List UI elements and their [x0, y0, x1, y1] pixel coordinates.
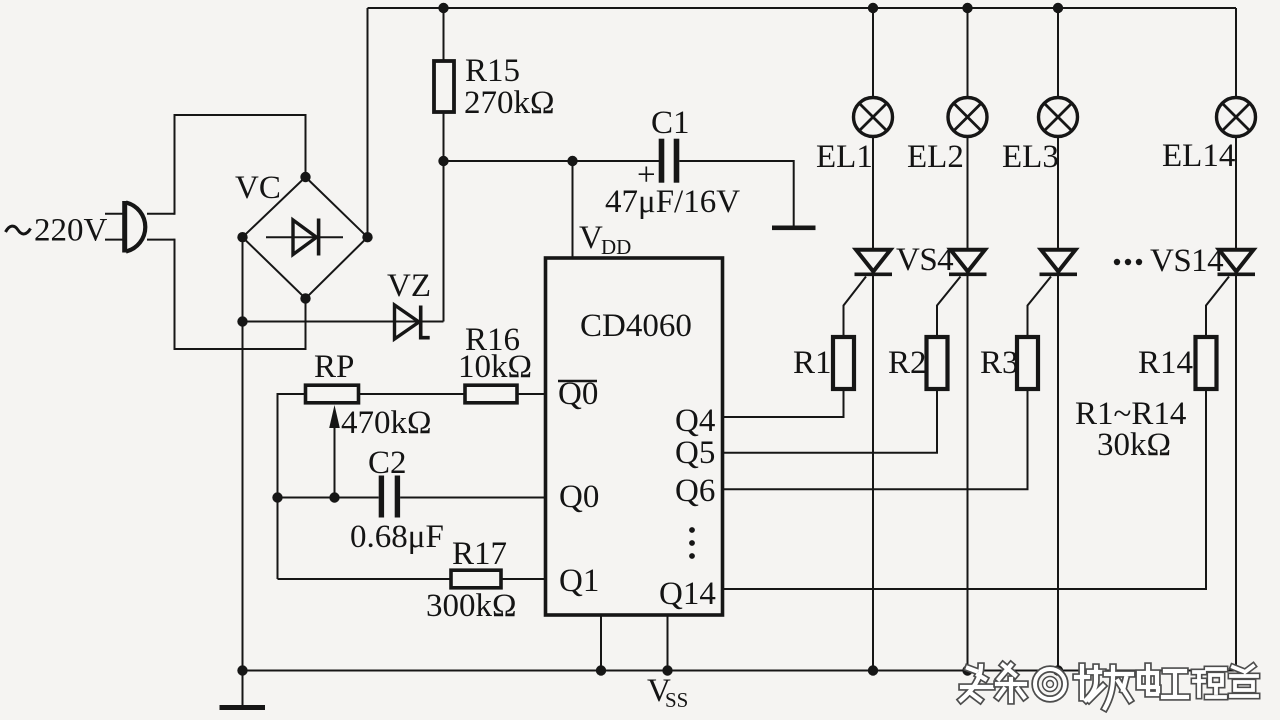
svg-text:470kΩ: 470kΩ	[341, 405, 432, 441]
svg-text:SS: SS	[665, 688, 688, 712]
wire R16 to IC	[517, 393, 546, 395]
capacitor C1	[659, 139, 680, 183]
svg-text:R3: R3	[980, 345, 1019, 381]
svg-text:VS14: VS14	[1150, 243, 1223, 279]
ground (C1)	[772, 226, 816, 231]
potentiometer RP	[306, 385, 359, 403]
net Q6 wire	[723, 389, 1028, 489]
svg-text:30kΩ: 30kΩ	[1097, 427, 1171, 463]
svg-text:C1: C1	[651, 105, 690, 141]
svg-text:Q4: Q4	[675, 403, 715, 439]
resistor R17	[451, 570, 501, 588]
svg-text:R14: R14	[1138, 345, 1193, 381]
lamp EL2 column	[948, 8, 987, 671]
svg-text:CD4060: CD4060	[580, 308, 692, 344]
wire VZ anode line	[243, 321, 444, 323]
lamp EL3 column	[1039, 8, 1078, 671]
bridge rectifier VC (diamond)	[243, 177, 368, 299]
dots (ellipsis before VS14)	[1114, 259, 1142, 265]
node bridge bottom	[300, 293, 310, 303]
label VSS	[647, 673, 688, 712]
node bus EL2	[962, 665, 972, 675]
thyristor VS1	[844, 250, 893, 337]
node R15 bottom / VDD rail	[438, 156, 448, 166]
zener diode VZ	[395, 305, 430, 339]
dots (vertical ellipsis inside IC)	[689, 527, 695, 559]
plug XP (AC plug symbol)	[105, 201, 175, 253]
svg-text:10kΩ: 10kΩ	[458, 349, 532, 385]
net Q1: wire left	[278, 578, 452, 580]
resistor R16	[465, 385, 517, 403]
wire RP to R16	[359, 393, 466, 395]
net Q4 wire	[723, 389, 844, 417]
wire bridge left vertex down (to VSS bus)	[242, 237, 244, 670]
svg-text:EL3: EL3	[1002, 139, 1059, 175]
RP wiper arrow	[329, 405, 340, 498]
net Q0bar: wire RP-R16-IC	[278, 394, 306, 579]
svg-text:300kΩ: 300kΩ	[426, 588, 517, 624]
node top bus / R15	[438, 3, 448, 13]
lamp EL1 column	[854, 8, 893, 671]
svg-text:RP: RP	[314, 349, 354, 385]
svg-text:R2: R2	[888, 345, 927, 381]
IC U1 CD4060 box	[546, 258, 723, 615]
net Q5 wire	[723, 389, 937, 453]
node VSS pin 2	[662, 665, 672, 675]
svg-text:47μF/16V: 47μF/16V	[605, 184, 740, 220]
node top bus EL1	[868, 3, 878, 13]
node bus EL1	[868, 665, 878, 675]
pin Q0bar label	[558, 376, 598, 412]
wire R17 to IC	[501, 578, 546, 580]
resistor R15	[434, 8, 454, 322]
svg-text:EL14: EL14	[1162, 138, 1235, 174]
svg-text:EL1: EL1	[816, 139, 873, 175]
wire top bus	[368, 7, 1237, 9]
thyristor VS2	[937, 250, 987, 337]
svg-text:EL2: EL2	[907, 139, 964, 175]
node top bus EL2	[962, 3, 972, 13]
lamp EL14 column	[1217, 8, 1256, 671]
node bridge top	[300, 172, 310, 182]
wire C2 to IC	[400, 497, 545, 499]
node VZ junction	[237, 316, 247, 326]
net Q0: node left	[272, 492, 282, 502]
wire VDD rail to C1	[444, 160, 660, 162]
wire bridge right vertex up to top bus	[367, 8, 369, 237]
svg-text:V: V	[579, 220, 603, 256]
wire VZ cathode corner up	[443, 160, 445, 322]
svg-text:VZ: VZ	[387, 268, 431, 304]
label VDD	[579, 220, 631, 259]
node bridge right	[362, 232, 372, 242]
svg-text:270kΩ: 270kΩ	[464, 85, 555, 121]
wire Q0 left	[278, 497, 379, 499]
svg-text:Q14: Q14	[659, 576, 716, 612]
node VSS pin 1	[596, 665, 606, 675]
node wiper	[329, 492, 339, 502]
IC VSS pin wires	[600, 615, 602, 671]
wire C1 to ground	[679, 161, 793, 226]
watermark 头条@技成电工课堂	[961, 665, 1257, 708]
label ~220V	[6, 213, 108, 249]
node bus left	[237, 665, 247, 675]
node bus EL3	[1053, 665, 1063, 675]
node VDD tap	[567, 156, 577, 166]
svg-text:R17: R17	[452, 536, 507, 572]
thyristor VS3	[1028, 250, 1078, 337]
svg-text:Q1: Q1	[559, 563, 599, 599]
wire VSS bus	[243, 670, 1237, 672]
svg-text:C2: C2	[368, 445, 407, 481]
svg-text:VS4: VS4	[896, 242, 953, 278]
bridge inner diode	[266, 219, 343, 256]
svg-text:R1: R1	[793, 345, 832, 381]
capacitor C2	[379, 476, 400, 518]
svg-text:220V: 220V	[34, 213, 108, 249]
svg-text:Q6: Q6	[675, 473, 715, 509]
ground (left)	[220, 705, 266, 710]
svg-text:Q0: Q0	[559, 479, 599, 515]
resistor R1	[833, 337, 854, 389]
resistor R14	[1196, 337, 1217, 389]
node top bus EL3	[1053, 3, 1063, 13]
thyristor VS14	[1206, 250, 1255, 337]
svg-text:Q5: Q5	[675, 435, 715, 471]
wire loop bottom (plug to bridge bottom)	[175, 239, 306, 349]
wire to ground (left)	[242, 671, 244, 706]
svg-text:R15: R15	[465, 53, 520, 89]
resistor R3	[1017, 337, 1038, 389]
node bridge left	[237, 232, 247, 242]
wire loop top (plug to bridge top)	[175, 115, 306, 215]
resistor R2	[927, 337, 948, 389]
svg-text:DD: DD	[601, 235, 631, 259]
wire VDD drop to IC	[572, 161, 574, 258]
svg-text:0.68μF: 0.68μF	[350, 519, 444, 555]
svg-text:VC: VC	[235, 170, 281, 206]
net Q14 wire	[723, 389, 1206, 589]
